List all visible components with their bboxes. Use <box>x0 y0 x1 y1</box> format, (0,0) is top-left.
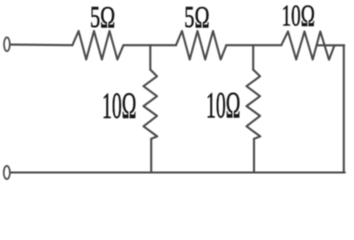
resistor R3 10ohm horizontal top-right <box>281 32 334 60</box>
label R3 value 10ohm <box>282 0 315 33</box>
label R2 value 5ohm <box>184 0 209 34</box>
svg-text:5Ω: 5Ω <box>184 0 209 34</box>
wire RV2 bottom lead <box>253 139 255 173</box>
wire right edge vertical <box>343 45 345 172</box>
svg-text:10Ω: 10Ω <box>206 86 240 126</box>
svg-text:10Ω: 10Ω <box>102 87 136 127</box>
wire node B segment (between R2 and R3) <box>226 44 281 46</box>
wire RV1 top lead <box>149 45 151 69</box>
wire RV2 top lead <box>252 45 254 69</box>
resistor R2 5ohm horizontal <box>176 31 226 60</box>
terminal T2 (bottom-left input) <box>4 166 10 179</box>
resistor R5 10ohm vertical (second shunt) <box>247 70 261 139</box>
terminal T1 (top-left input) <box>4 37 10 51</box>
wire top-right exit (overlaps R3 tail) <box>317 44 344 46</box>
wire bottom rail <box>10 171 345 173</box>
resistor R4 10ohm vertical (first shunt) <box>144 70 158 139</box>
svg-text:10Ω: 10Ω <box>282 0 315 33</box>
label R4 value 10ohm <box>102 87 136 127</box>
wire top-left lead <box>10 44 72 47</box>
resistor R1 5ohm horizontal <box>72 31 123 60</box>
label R5 value 10ohm <box>206 86 240 126</box>
wire node A segment (between R1 and R2) <box>123 44 176 46</box>
svg-text:5Ω: 5Ω <box>90 0 115 34</box>
wire RV1 bottom lead <box>150 139 152 173</box>
label R1 value 5ohm <box>90 0 115 34</box>
